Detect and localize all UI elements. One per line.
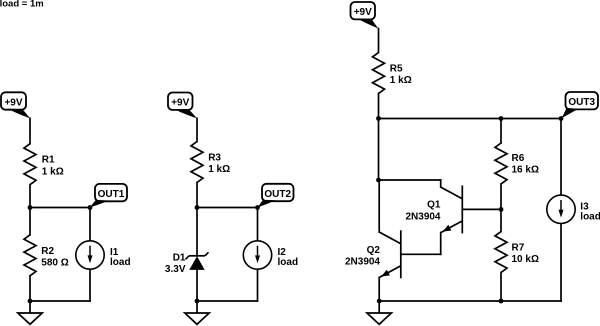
wire R6 to divider node	[500, 184, 502, 209]
wire bottom rail left circuit	[30, 300, 90, 302]
wire +9V to R1	[29, 118, 31, 143]
svg-text:16 kΩ: 16 kΩ	[512, 165, 539, 176]
wire R2 top	[29, 208, 31, 235]
wire R7 to bottom rail	[500, 273, 502, 302]
svg-text:3.3V: 3.3V	[165, 264, 186, 275]
wire +9V to R5	[378, 29, 380, 53]
wire Q1 emitter to Q2 base	[401, 253, 441, 255]
node OUT1 label	[90, 184, 127, 207]
zener diode D1	[186, 252, 209, 270]
svg-text:load: load	[580, 212, 600, 223]
svg-text:load: load	[278, 257, 299, 268]
svg-text:OUT3: OUT3	[568, 97, 595, 108]
ground (right circuit)	[367, 301, 391, 324]
svg-text:load: load	[110, 257, 131, 268]
transistor Q2 2N3904	[379, 230, 401, 278]
wire D1 anode to bottom rail	[196, 270, 198, 301]
wire bottom rail right circuit	[379, 300, 561, 302]
svg-text:+9V: +9V	[4, 98, 22, 109]
wire I2 to bottom rail	[257, 270, 259, 302]
svg-text:Q2: Q2	[367, 245, 381, 256]
junction OUT2 wire	[255, 205, 260, 210]
junction OUT1 wire	[88, 205, 93, 210]
wire I1 to bottom rail	[89, 270, 91, 302]
svg-text:OUT1: OUT1	[98, 189, 125, 200]
wire bottom rail middle circuit	[197, 300, 258, 302]
svg-text:R5: R5	[390, 63, 403, 74]
wire R1 to node OUT1 rail	[29, 185, 31, 208]
wire left rail down to Q2 collector	[378, 180, 380, 232]
svg-text:R1: R1	[42, 155, 55, 166]
wire I3 to bottom rail	[560, 224, 562, 301]
wire R5 to top rail	[378, 94, 380, 119]
current source I1	[76, 241, 104, 269]
junction R5/top rail	[376, 116, 381, 121]
svg-text:load = 1m: load = 1m	[0, 0, 44, 10]
wire Q1 collector lead	[440, 180, 442, 187]
junction ground middle	[195, 299, 200, 304]
junction R1/R2/OUT1	[28, 205, 33, 210]
wire OUT2 node to D1 cathode	[196, 208, 198, 256]
ground (left circuit)	[18, 301, 42, 324]
transistor Q1 2N3904	[441, 185, 463, 233]
wire top rail to R6	[500, 119, 502, 144]
current source I3	[547, 195, 575, 223]
wire Q1 collector to left rail	[379, 179, 441, 181]
svg-text:+9V: +9V	[171, 98, 189, 109]
wire OUT1 to I1	[89, 208, 91, 241]
svg-text:10 kΩ: 10 kΩ	[512, 254, 539, 265]
junction R3/D1/OUT2	[195, 205, 200, 210]
node +9V (right supply label)	[351, 2, 379, 29]
wire Q2 emitter to bottom rail	[378, 278, 380, 302]
node +9V (middle supply label)	[168, 93, 197, 119]
resistor R3	[191, 142, 203, 183]
svg-text:1 kΩ: 1 kΩ	[208, 164, 230, 175]
resistor R6	[495, 143, 507, 184]
wire +9V to R3	[196, 118, 198, 141]
current source I2	[243, 241, 271, 269]
wire OUT3 to I3	[560, 119, 562, 195]
wire divider node to R7	[500, 209, 502, 231]
svg-text:Q1: Q1	[427, 200, 441, 211]
wire Q1 emitter lead down	[440, 233, 442, 255]
wire OUT1 rail horizontal	[30, 207, 90, 209]
resistor R2	[24, 235, 36, 276]
wire left rail down to Q1 collector node	[378, 119, 380, 181]
wire OUT2 rail horizontal	[197, 207, 258, 209]
node OUT2 label	[258, 184, 294, 208]
svg-text:OUT2: OUT2	[264, 189, 291, 200]
wire R3 to OUT2 rail	[196, 183, 198, 208]
node +9V (left supply label)	[1, 92, 30, 118]
svg-text:1 kΩ: 1 kΩ	[42, 166, 64, 177]
svg-text:+9V: +9V	[354, 7, 372, 18]
svg-text:R3: R3	[208, 153, 221, 164]
junction R7 bottom	[499, 299, 504, 304]
svg-text:D1: D1	[173, 252, 186, 263]
junction R6 top	[499, 116, 504, 121]
junction ground left	[28, 299, 33, 304]
svg-text:1 kΩ: 1 kΩ	[390, 75, 412, 86]
resistor R1	[24, 144, 36, 185]
ground (middle circuit)	[185, 301, 209, 324]
wire OUT2 to I2	[257, 208, 259, 241]
svg-text:2N3904: 2N3904	[345, 257, 380, 268]
svg-text:580 Ω: 580 Ω	[41, 258, 68, 269]
svg-text:2N3904: 2N3904	[405, 211, 440, 222]
junction divider node R6/R7/Q1 base	[499, 207, 504, 212]
resistor R5	[373, 53, 385, 94]
svg-text:R6: R6	[512, 153, 525, 164]
junction Q1 collector node	[376, 178, 381, 183]
resistor R7	[495, 232, 507, 273]
wire R2 to ground rail	[29, 276, 31, 301]
junction OUT3 node	[559, 116, 564, 121]
svg-text:R2: R2	[41, 246, 54, 257]
node OUT3 label	[561, 92, 598, 118]
wire Q1 base to divider	[462, 208, 501, 210]
junction Q2 emitter / ground	[377, 299, 382, 304]
svg-text:R7: R7	[512, 243, 525, 254]
wire top rail to OUT3	[379, 118, 562, 120]
